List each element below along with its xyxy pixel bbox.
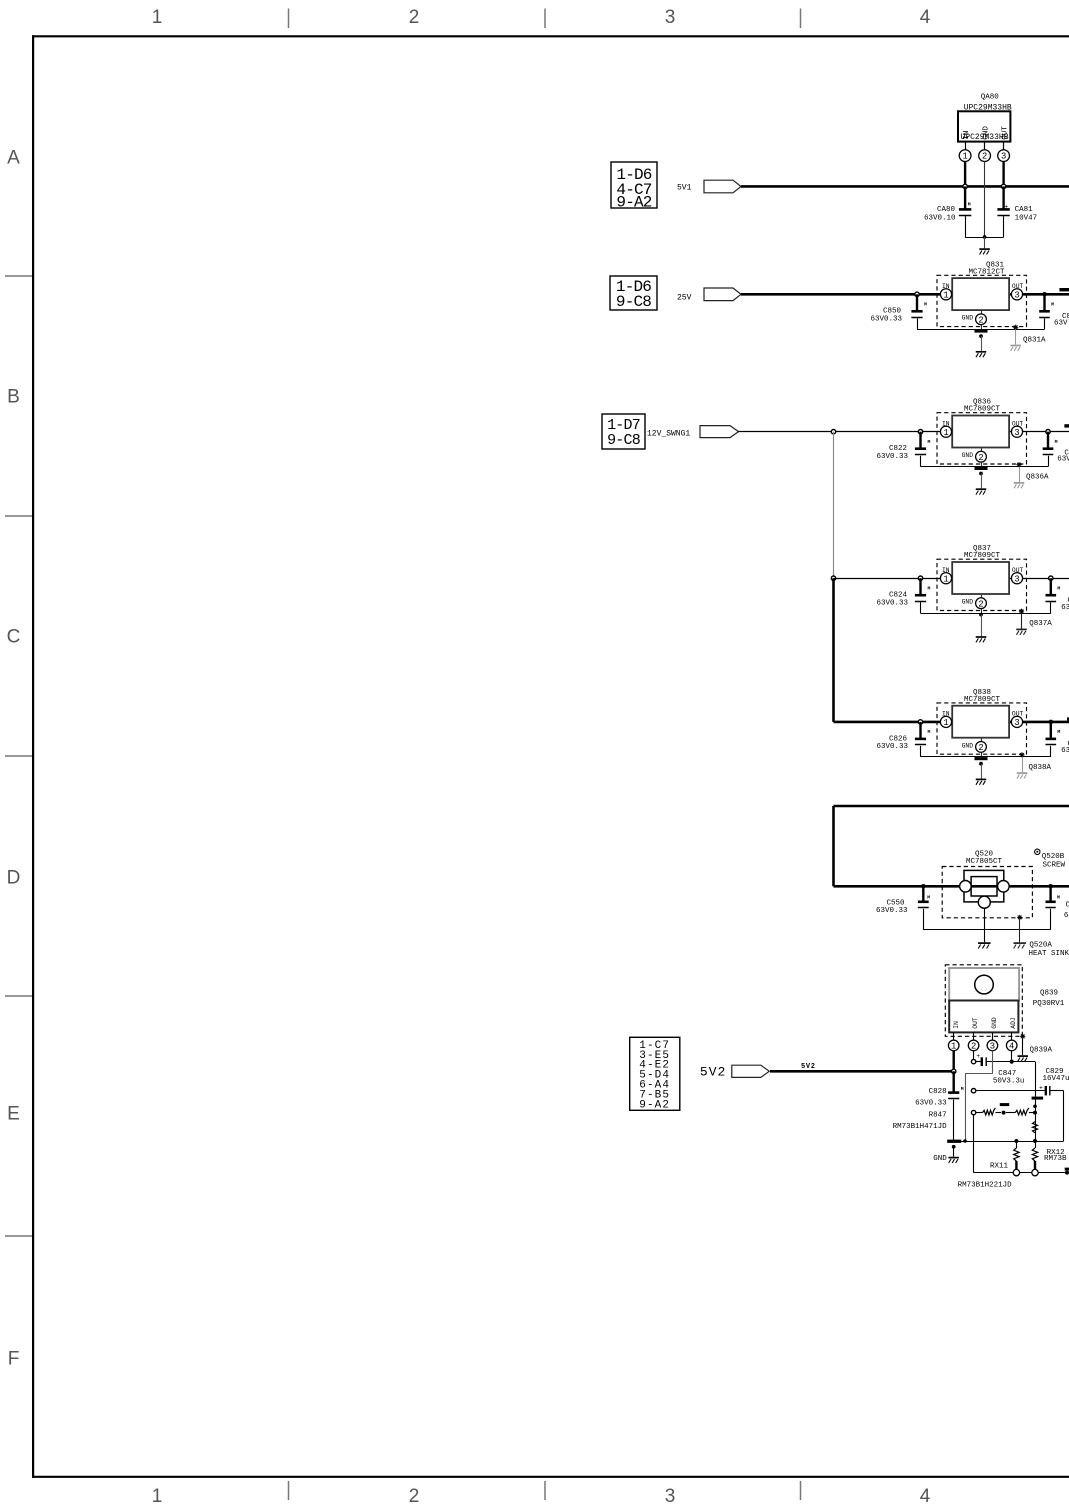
junction at QA80 pin1 (963, 184, 967, 188)
regulator Q839 PQ30RV1 dashed outline (945, 965, 1022, 1037)
junction ground bus RX11 (1014, 1139, 1018, 1143)
mounting star Q839A (1017, 1034, 1027, 1062)
svg-text:OUT: OUT (972, 1017, 979, 1029)
svg-text:GND: GND (962, 599, 974, 606)
clipped component at sheet edge (1064, 424, 1069, 427)
signal flag 5V1 (704, 180, 741, 193)
Q831 pin 2 (976, 314, 987, 325)
output capacitor of Q838 (1046, 722, 1061, 757)
svg-text:63V: 63V (1054, 320, 1068, 328)
label Q839 PQ30RV1 (1033, 990, 1065, 1009)
Q831 pin 3 (1011, 289, 1022, 300)
ground GND (948, 1147, 959, 1163)
junction Q831 ground (979, 334, 983, 338)
Q520 pin GND (978, 896, 990, 908)
wire Q831 output (1009, 293, 1069, 296)
svg-text:2: 2 (978, 315, 983, 325)
junction ground bus left (963, 1139, 967, 1143)
svg-text:Q836A: Q836A (1026, 474, 1049, 482)
ground Q520 (978, 908, 991, 948)
chip pad on ADJ column (1032, 1097, 1044, 1100)
capacitor C850 (911, 294, 927, 329)
svg-text:2: 2 (978, 599, 983, 609)
value label C550 63V0.33 (876, 900, 908, 915)
resistor RX12 (1032, 1141, 1037, 1170)
Q837 pin 2 (976, 598, 987, 609)
svg-text:5V2: 5V2 (700, 1064, 726, 1079)
junction 12V_SWNG1 tap (831, 430, 835, 434)
wire QA80 ground bus (965, 237, 1004, 239)
wire Q839 pin1 to 5V2 (953, 1051, 955, 1072)
svg-text:3: 3 (1001, 152, 1006, 162)
svg-text:1: 1 (943, 428, 948, 438)
Q838 pin 2 (976, 742, 987, 753)
wire Q837 ground bus (921, 613, 1051, 615)
svg-text:C828: C828 (929, 1088, 947, 1096)
svg-text:3: 3 (990, 1042, 995, 1052)
junction Q838 output (1049, 720, 1054, 725)
value label C824 63V0.33 (876, 592, 908, 608)
regulator Q839 tab (949, 968, 1019, 1001)
value label C850 63V0.33 (870, 308, 902, 324)
svg-text:MC7805CT: MC7805CT (966, 858, 1003, 866)
Q839 pin 3 (987, 1032, 998, 1051)
wire 12V_SWNG1 vertical drop upper (833, 432, 835, 579)
output capacitor of Q831 (1039, 294, 1054, 329)
Q839 pin 4 (1006, 1032, 1017, 1051)
svg-text:1: 1 (152, 1486, 163, 1507)
ground Q838 (976, 764, 987, 785)
svg-text:Q839A: Q839A (1030, 1047, 1053, 1055)
junction 5V2 at pin1 (952, 1069, 956, 1073)
svg-text:3: 3 (1014, 428, 1019, 438)
Q836 ground pad (975, 467, 988, 470)
value label output capacitor (clipped) (1061, 597, 1069, 612)
signal flag 12V_SWNG1 (700, 426, 739, 438)
wire 12V_SWNG1 feed (739, 431, 921, 433)
Q836 pin 3 (1011, 426, 1022, 437)
terminal RX11 (1013, 1169, 1019, 1175)
svg-text:4: 4 (920, 1486, 931, 1507)
wire Q831 input (917, 293, 952, 296)
regulator Q838 body (952, 706, 1009, 738)
svg-text:M: M (1057, 729, 1060, 735)
value label C847 50V3.3u (993, 1070, 1025, 1086)
svg-text:F: F (8, 1349, 20, 1370)
capacitor C550 (918, 886, 930, 930)
svg-text:63: 63 (1064, 912, 1069, 920)
value labels C828 63V0.33 R847 RM73B1H471JD (893, 1088, 948, 1131)
svg-text:M: M (1057, 586, 1060, 592)
svg-text:M: M (1057, 895, 1060, 901)
regulator Q831 body (952, 278, 1009, 310)
wire Q839 pin3 ground return (965, 1051, 993, 1141)
wire Q831 ground bus (917, 329, 1045, 331)
junction Q837 output (1049, 576, 1053, 580)
svg-text:C850: C850 (883, 308, 902, 316)
svg-text:2: 2 (409, 7, 420, 28)
Q836 pin 1 (940, 426, 951, 437)
regulator Q520 body (964, 870, 1004, 902)
wire Q520 ground bus (923, 929, 1050, 931)
Q838 pin 1 (940, 716, 951, 727)
value label output capacitor (clipped) (1057, 450, 1069, 464)
svg-text:C824: C824 (889, 592, 908, 600)
svg-text:10V47: 10V47 (1015, 214, 1038, 222)
Q839 pin names IN OUT GND ADJ (953, 1017, 1017, 1029)
svg-text:3: 3 (1014, 574, 1019, 584)
heat sink tab Q520A (1013, 915, 1025, 949)
wire Q836 input (921, 431, 953, 433)
junction at QA80 pin3 (1001, 184, 1005, 188)
wire lower ground bus (950, 1141, 1064, 1143)
svg-text:RX11: RX11 (990, 1163, 1009, 1171)
svg-text:PQ30RV1: PQ30RV1 (1033, 1000, 1065, 1008)
regulator Q520 MC7805CT labels (966, 851, 1003, 866)
regulator QA80 UPC29M33HB body (958, 94, 1012, 142)
heat sink tab Q836A (1014, 462, 1025, 488)
svg-text:Q520A: Q520A (1029, 942, 1052, 950)
wire QA80 pin3 to 5V1 (1002, 162, 1004, 187)
svg-text:RM73B: RM73B (1044, 1155, 1067, 1163)
svg-text:63V0.33: 63V0.33 (876, 743, 908, 751)
svg-text:C822: C822 (889, 445, 907, 453)
node divider row tap (971, 1110, 975, 1114)
svg-text:4: 4 (920, 7, 931, 28)
wire feedback row (976, 1090, 1045, 1092)
Q831 ground pad (975, 330, 988, 333)
regulator Q836 body (952, 416, 1009, 448)
capacitor C847 (976, 1053, 1012, 1066)
svg-text:M: M (968, 201, 971, 207)
wire Q838 feed (834, 721, 921, 724)
junction Q838 ground (979, 762, 983, 766)
value label C822 63V0.33 (876, 445, 908, 461)
junction Q837 input (918, 576, 922, 580)
value label output capacitor (clipped) (1061, 741, 1069, 755)
junction Q831 input (915, 292, 919, 296)
heat sink tab Q838A (1017, 752, 1028, 778)
regulator Q831 MC7812CT labels (968, 261, 1005, 276)
svg-text:GND: GND (933, 1155, 947, 1163)
svg-text:+: + (1039, 1084, 1043, 1091)
wire QA80 pin2 to ground bus (984, 162, 986, 238)
svg-text:GND: GND (991, 1017, 998, 1029)
wire Q837 feed (834, 578, 921, 580)
svg-text:5V1: 5V1 (677, 184, 692, 193)
capacitor C826 (915, 722, 931, 757)
wire QA80 pin1 to 5V1 (964, 162, 966, 187)
svg-text:GND: GND (962, 452, 974, 459)
node 5V1 reference box (611, 162, 657, 208)
regulator Q837 dashed outline (937, 559, 1027, 610)
svg-text:M: M (928, 439, 931, 445)
wire 5V2 feed (770, 1070, 954, 1073)
svg-text:Q837A: Q837A (1029, 620, 1052, 628)
junction Q837 ground (979, 613, 983, 617)
signal flag 5V2 (732, 1065, 770, 1077)
regulator Q837 body (952, 562, 1009, 594)
svg-text:63: 63 (1061, 604, 1069, 612)
junction ADJ column (1033, 1105, 1037, 1109)
svg-text:M: M (928, 586, 931, 592)
Q839 pin 2 (968, 1032, 979, 1051)
grid column numbers (top) (152, 7, 931, 28)
resistor RX11 (1014, 1141, 1019, 1170)
regulator Q836 MC7809CT labels (964, 399, 1001, 414)
Q838 ground pad (975, 757, 988, 760)
svg-text:16V47u: 16V47u (1043, 1075, 1069, 1083)
svg-text:63V0.33: 63V0.33 (876, 453, 908, 461)
svg-text:9-A2: 9-A2 (639, 1100, 670, 1112)
output capacitor of Q836 (1043, 432, 1058, 467)
svg-text:25V: 25V (677, 293, 692, 302)
svg-text:5V2: 5V2 (801, 1063, 816, 1071)
svg-text:M: M (927, 895, 930, 901)
svg-text:A: A (7, 148, 20, 169)
svg-text:CA80: CA80 (937, 206, 956, 214)
svg-text:63V0.33: 63V0.33 (876, 599, 908, 607)
svg-text:CA81: CA81 (1015, 206, 1034, 214)
QA80 pin 3 (998, 142, 1010, 162)
capacitor CA80 (959, 186, 971, 237)
QA80 pin names IN GND OUT (960, 126, 1009, 143)
svg-text:3: 3 (1014, 718, 1019, 728)
svg-text:E: E (7, 1104, 20, 1125)
svg-text:M: M (1055, 439, 1058, 445)
svg-text:1: 1 (943, 718, 948, 728)
svg-text:+: + (976, 1053, 980, 1060)
capacitor CA81 (997, 186, 1009, 237)
value label CA80 63V0.10 (924, 206, 956, 222)
svg-text:GND: GND (962, 315, 974, 322)
svg-text:C8: C8 (1066, 902, 1069, 910)
svg-text:63V0.33: 63V0.33 (876, 907, 908, 915)
ground QA80 (979, 237, 990, 255)
regulator Q831 dashed outline (937, 275, 1027, 326)
svg-text:D: D (7, 868, 21, 889)
grid column ticks (289, 9, 801, 1501)
svg-text:M: M (924, 302, 927, 308)
Q831 pin 1 (940, 289, 951, 300)
wire C829 return (1063, 1091, 1065, 1141)
wire Q837 input (921, 578, 953, 580)
wire pin2 column to bottom rail (973, 1115, 975, 1173)
heat sink tab Q837A (1016, 609, 1027, 635)
wire 12V_SWNG1 vertical drop lower (832, 578, 835, 722)
Q520 pin OUT (998, 881, 1010, 893)
svg-text:63V: 63V (1057, 456, 1069, 464)
heat sink tab Q831A (1010, 325, 1021, 351)
Q520 pin IN (960, 881, 972, 893)
junction ground bus RX12 (1033, 1139, 1037, 1143)
junction divider mid (1002, 1111, 1006, 1115)
svg-text:2: 2 (409, 1486, 420, 1507)
svg-text:9-C8: 9-C8 (616, 293, 651, 311)
junction Q520 input (921, 884, 926, 889)
svg-text:C826: C826 (889, 735, 908, 743)
regulator Q836 dashed outline (937, 413, 1027, 464)
svg-text:QA80: QA80 (981, 94, 1000, 102)
signal flag 25V (704, 288, 741, 301)
junction Q836 input (918, 430, 922, 434)
junction Q836 output (1046, 430, 1050, 434)
wire Q520 feed loop vertical (832, 806, 835, 886)
node 12V_SWNG1 reference box (602, 414, 645, 449)
value label CA81 10V47 (1015, 206, 1038, 222)
svg-text:IN: IN (953, 1021, 960, 1029)
svg-text:12V_SWNG1: 12V_SWNG1 (647, 429, 690, 438)
svg-text:M: M (961, 1086, 964, 1092)
svg-text:RM73B1H471JD: RM73B1H471JD (893, 1123, 948, 1131)
svg-text:M: M (1051, 302, 1054, 308)
Q837 pin 1 (940, 573, 951, 584)
svg-text:M: M (928, 729, 931, 735)
svg-text:Q831A: Q831A (1023, 336, 1046, 344)
svg-text:1: 1 (951, 1042, 956, 1052)
svg-text:Q839: Q839 (1040, 990, 1058, 998)
junction Q836 ground (979, 472, 983, 476)
svg-text:SCREW: SCREW (1043, 862, 1066, 870)
junction Q831 output (1042, 292, 1047, 297)
junction Q837 tap (831, 576, 835, 580)
wire Q520 input rail (834, 885, 1069, 888)
ground Q837 (976, 615, 987, 643)
node 5V2 reference box (630, 1037, 680, 1110)
Q838 pin 3 (1011, 716, 1022, 727)
QA80 pin 1 (959, 142, 971, 162)
clipped component at sheet edge bottom (1065, 1168, 1069, 1171)
wire 5V1 bus (741, 185, 1069, 188)
capacitor C828 (948, 1071, 964, 1139)
wire Q838 input (921, 721, 953, 724)
terminal RX12 (1032, 1169, 1038, 1175)
regulator Q837 MC7809CT labels (964, 545, 1001, 560)
value label Q520 output capacitor (clipped) (1064, 902, 1069, 921)
junction Q838 input (918, 720, 922, 724)
svg-text:63V0.10: 63V0.10 (924, 214, 956, 222)
svg-text:3: 3 (665, 1486, 676, 1507)
chip pad above divider mid (1000, 1103, 1009, 1106)
wire Q520 feed loop top (834, 805, 1069, 808)
grid column numbers (bottom) (152, 1486, 931, 1507)
svg-text:R847: R847 (929, 1111, 947, 1119)
capacitor C829 (1039, 1084, 1064, 1095)
wire Q837 output (1009, 578, 1069, 580)
svg-text:3: 3 (665, 7, 676, 28)
node Q839 OUT (971, 1059, 975, 1063)
wire ADJ column down (1035, 1062, 1037, 1141)
svg-text:3: 3 (1014, 290, 1019, 300)
junction ADJ node (1010, 1060, 1014, 1064)
wire Q838 ground bus (921, 756, 1051, 758)
svg-text:+: + (1004, 203, 1008, 210)
svg-text:HEAT SINK: HEAT SINK (1029, 950, 1069, 958)
wire Q839 pin2 down (973, 1051, 975, 1062)
svg-text:2: 2 (982, 152, 987, 162)
grid row letters (7, 148, 21, 1370)
output capacitor of Q520 (1046, 886, 1061, 930)
wire ADJ node right (1012, 1061, 1035, 1063)
svg-text:4: 4 (1009, 1042, 1014, 1052)
svg-text:1: 1 (943, 290, 948, 300)
svg-text:9-C8: 9-C8 (607, 432, 641, 449)
wire 25V feed (741, 293, 917, 296)
QA80 pin 2 (979, 142, 991, 162)
regulator Q520 dashed outline (942, 867, 1032, 918)
clipped component at sheet edge (1067, 717, 1069, 720)
junction on QA80 ground bus (983, 235, 987, 239)
resistor R847 (left) (976, 1108, 1001, 1115)
svg-text:1: 1 (152, 7, 163, 28)
label Q520A HEAT SINK (1029, 942, 1069, 958)
svg-text:2: 2 (978, 743, 983, 753)
svg-text:Q520B: Q520B (1042, 853, 1065, 861)
wire Q836 output (1009, 431, 1069, 433)
svg-text:2: 2 (978, 453, 983, 463)
Q836 pin 2 wire (981, 448, 983, 467)
value label output capacitor (clipped) (1054, 313, 1069, 328)
Q831 pin 2 wire (981, 310, 983, 329)
node 25V reference box (610, 276, 657, 310)
junction bottom rail edge (1065, 1171, 1069, 1175)
svg-text:63V0.33: 63V0.33 (870, 316, 902, 324)
svg-text:1: 1 (943, 574, 948, 584)
Q836 pin 2 (976, 451, 987, 462)
screw symbol Q520B (1035, 849, 1040, 854)
wire bottom rail (974, 1172, 1069, 1174)
svg-text:ADJ: ADJ (1010, 1017, 1017, 1029)
junction Q520 output (1048, 884, 1053, 889)
Q837 pin 3 (1011, 573, 1022, 584)
grid row ticks (5, 276, 32, 1236)
value label C826 63V0.33 (876, 735, 908, 751)
value label C829 16V47u (1043, 1068, 1069, 1083)
junction GND node (952, 1145, 956, 1149)
capacitor C822 (915, 432, 931, 467)
wire Q836 ground bus (921, 466, 1049, 468)
regulator Q839 body (949, 1001, 1018, 1033)
svg-text:1: 1 (962, 152, 967, 162)
label Q520B SCREW (1042, 853, 1066, 870)
junction divider right (1033, 1111, 1037, 1115)
Q839 pin 1 (948, 1032, 959, 1051)
clipped component at sheet edge (1059, 288, 1069, 291)
wire Q838 output (1009, 721, 1069, 724)
Q837 pin 2 wire (981, 594, 983, 613)
svg-text:Q838A: Q838A (1029, 764, 1052, 772)
svg-text:C: C (7, 627, 21, 648)
svg-text:63: 63 (1061, 747, 1069, 755)
label RX12 RM73B (1044, 1149, 1067, 1163)
svg-text:50V3.3u: 50V3.3u (993, 1077, 1025, 1085)
svg-text:GND: GND (962, 742, 974, 749)
svg-text:2: 2 (971, 1042, 976, 1052)
capacitor C824 (915, 578, 931, 613)
svg-text:B: B (7, 387, 20, 408)
svg-text:63V0.33: 63V0.33 (915, 1100, 947, 1108)
wire Q839 pin4 to ADJ node (1011, 1051, 1013, 1062)
output capacitor of Q837 (1046, 578, 1061, 613)
ground pad GND node (947, 1140, 961, 1143)
svg-text:UPC29M33HB: UPC29M33HB (960, 133, 1008, 142)
resistor divider (right) (1006, 1108, 1035, 1115)
Q838 pin 2 wire (981, 738, 983, 757)
ground Q831 (976, 336, 987, 357)
svg-text:RM73B1H221JD: RM73B1H221JD (958, 1181, 1013, 1189)
regulator Q838 MC7809CT labels (964, 689, 1001, 704)
regulator Q838 dashed outline (937, 703, 1027, 754)
